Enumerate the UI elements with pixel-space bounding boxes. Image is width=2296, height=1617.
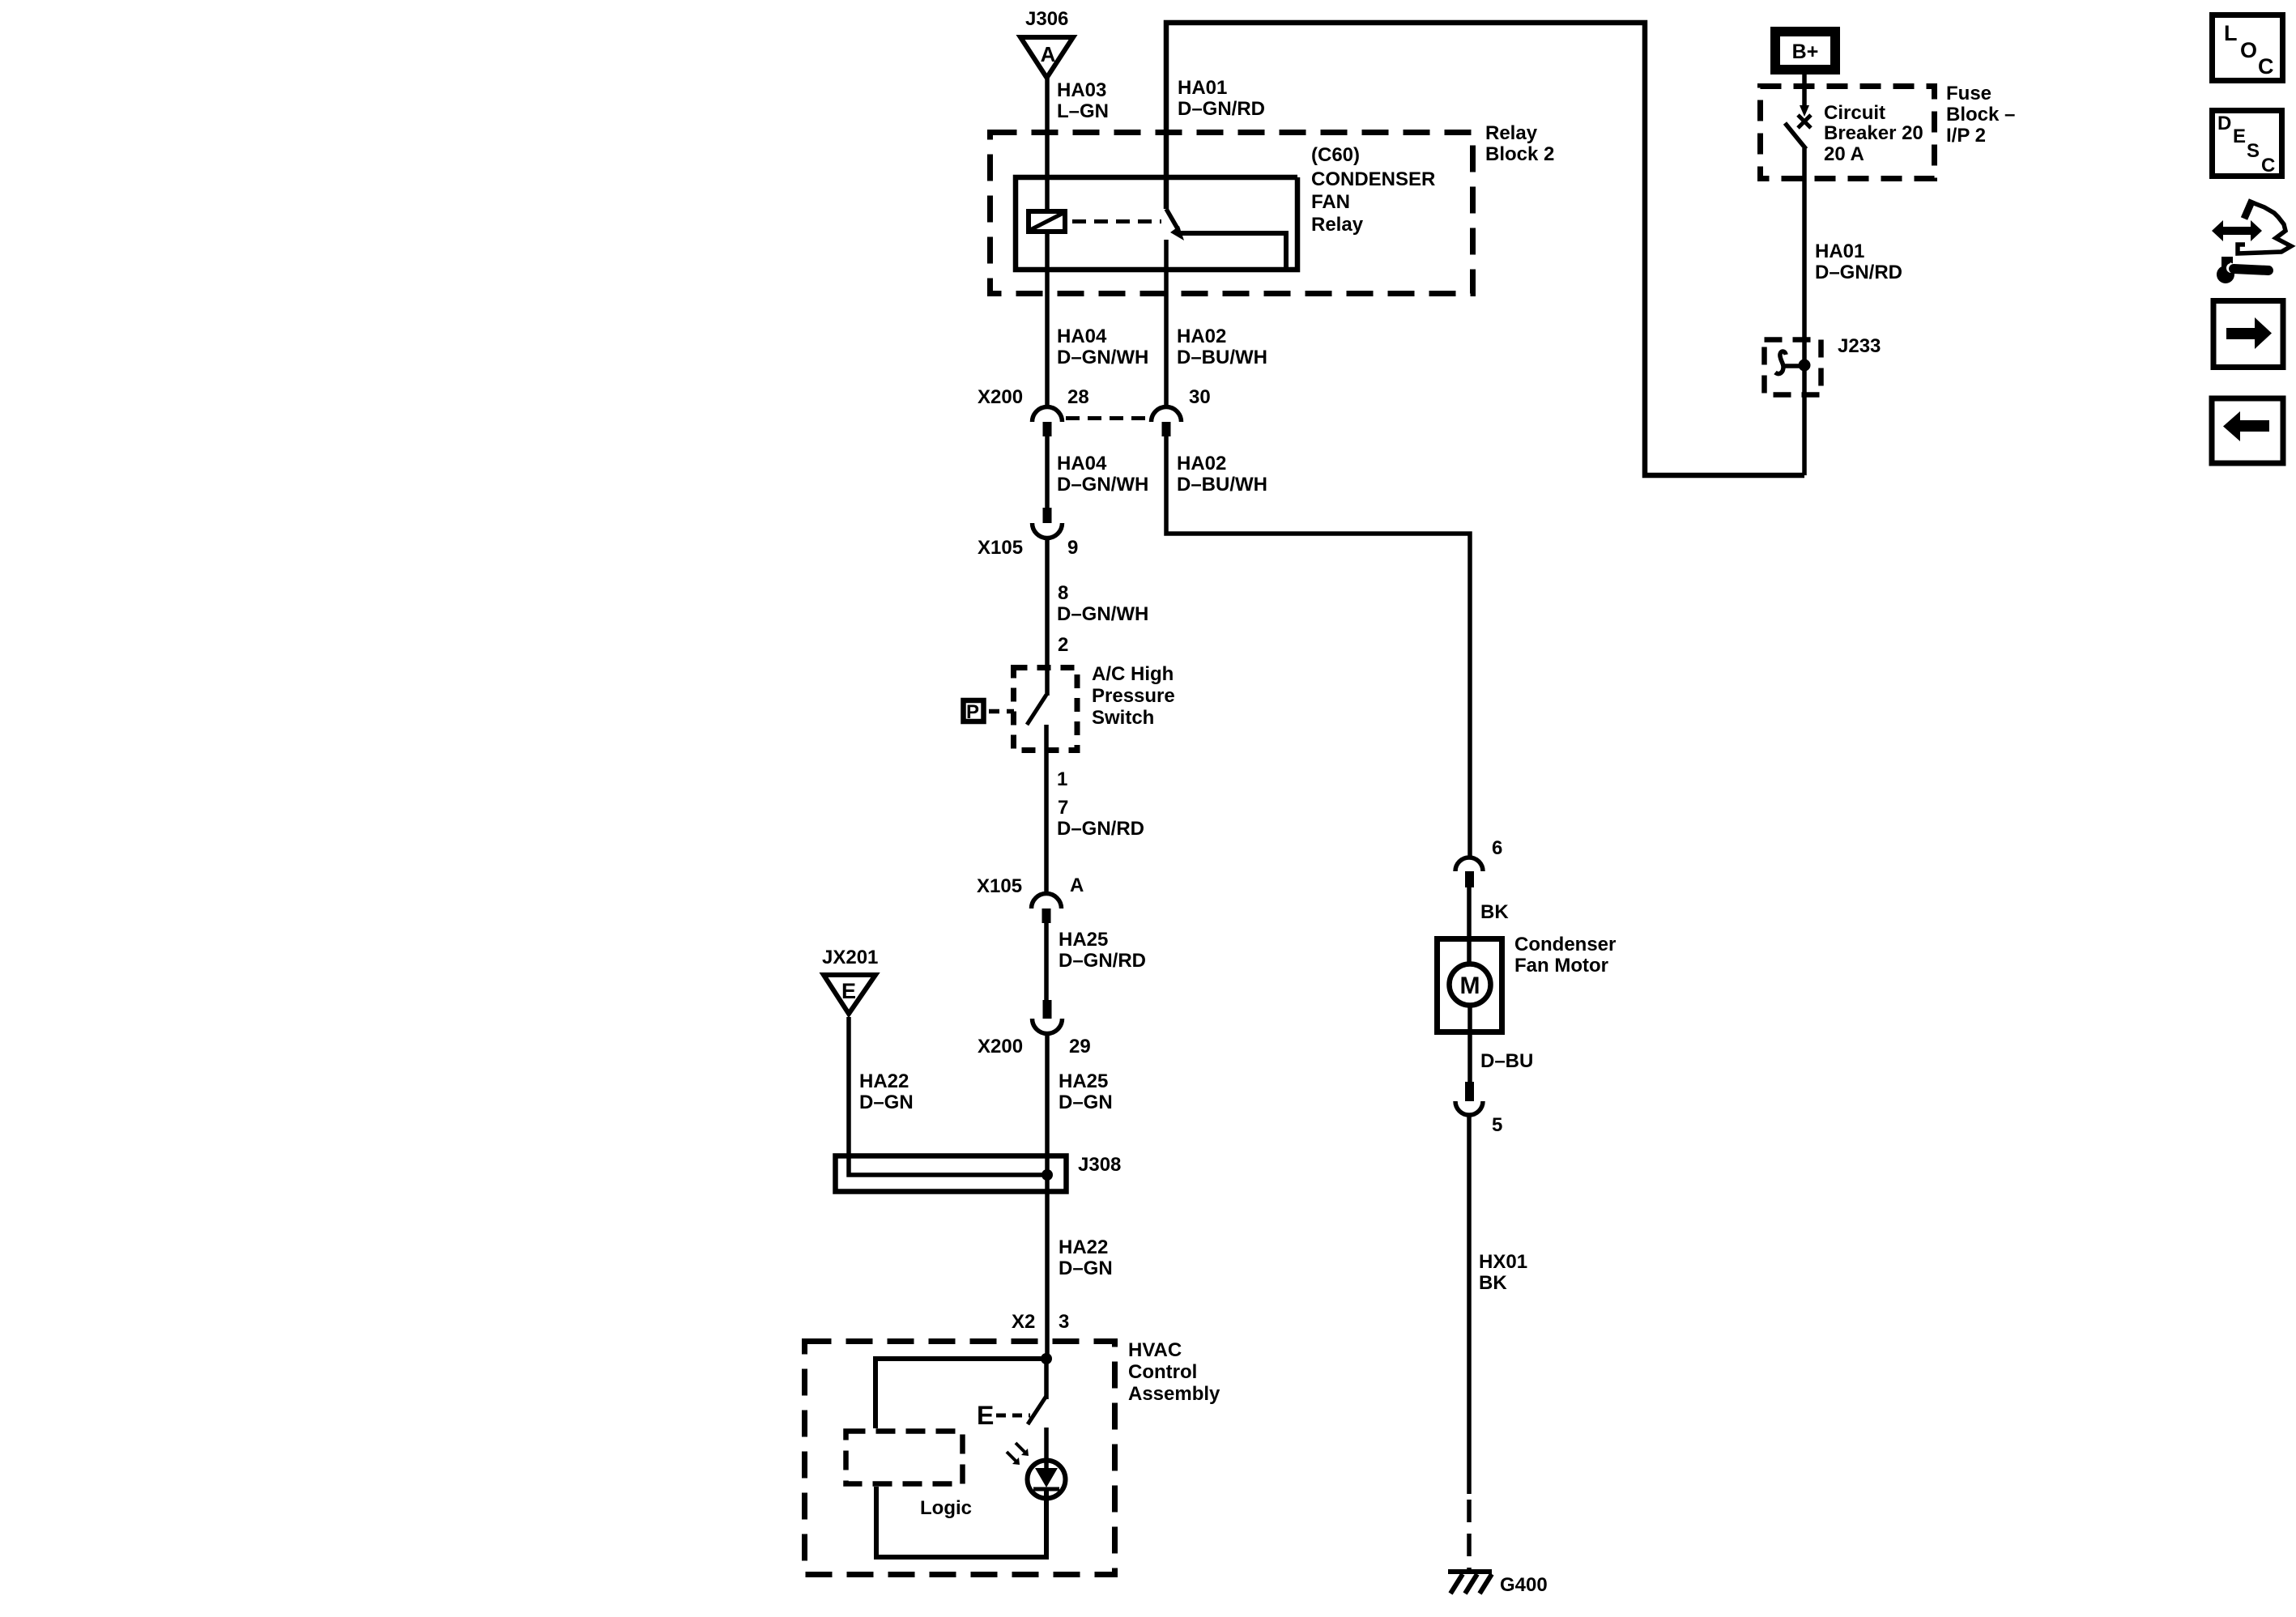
svg-text:E: E bbox=[977, 1401, 994, 1430]
svg-text:30: 30 bbox=[1189, 386, 1211, 408]
svg-text:C: C bbox=[2261, 155, 2275, 177]
svg-text:BK: BK bbox=[1480, 901, 1509, 923]
svg-text:HA22: HA22 bbox=[1059, 1236, 1108, 1258]
icon service navigation diagonal stub bbox=[2244, 200, 2252, 219]
svg-text:HA02: HA02 bbox=[1177, 326, 1226, 347]
label HA04 D-GN/WH (upper) bbox=[1057, 326, 1148, 368]
icon DESC bbox=[2213, 111, 2282, 177]
circuit breaker arm bbox=[1785, 123, 1806, 149]
svg-text:28: 28 bbox=[1067, 386, 1089, 408]
wire pin 1 to X105 A bbox=[1044, 725, 1049, 894]
icon service navigation double arrow bbox=[2212, 220, 2262, 241]
svg-text:Switch: Switch bbox=[1092, 707, 1154, 729]
svg-text:Relay: Relay bbox=[1311, 214, 1364, 236]
wire D-BU below motor bbox=[1467, 1005, 1472, 1082]
label HA03 L-GN bbox=[1057, 79, 1109, 122]
svg-text:Block –: Block – bbox=[1946, 104, 2015, 126]
svg-text:J308: J308 bbox=[1078, 1154, 1121, 1176]
connector pin 5 bbox=[1455, 1082, 1483, 1115]
svg-text:E: E bbox=[2233, 126, 2246, 147]
svg-text:7: 7 bbox=[1058, 797, 1068, 819]
svg-text:20 A: 20 A bbox=[1824, 143, 1864, 165]
connector JX201 triangle E bbox=[824, 975, 875, 1014]
wire HA02 route to condenser fan motor bbox=[1166, 436, 1470, 856]
relay U1 outline bbox=[1016, 177, 1297, 270]
icon LOC bbox=[2213, 15, 2283, 81]
svg-text:D–GN: D–GN bbox=[1059, 1091, 1113, 1113]
svg-text:D–GN/WH: D–GN/WH bbox=[1057, 474, 1148, 496]
svg-text:G400: G400 bbox=[1500, 1574, 1548, 1596]
label Relay Block 2 bbox=[1485, 122, 1554, 165]
label 8 D-GN/WH bbox=[1057, 582, 1148, 625]
relay coil bbox=[1029, 211, 1065, 232]
svg-text:3: 3 bbox=[1059, 1311, 1069, 1333]
label HA01 D-GN/RD (top) bbox=[1178, 77, 1265, 120]
wire B+ into breaker with arrowhead bbox=[1800, 74, 1809, 117]
battery feed B+ bbox=[1770, 27, 1840, 74]
label Fuse Block - I/P 2 bbox=[1946, 83, 2015, 147]
relay switch contact path bbox=[1176, 233, 1286, 270]
junction dot J308 bbox=[1042, 1169, 1053, 1181]
relay switch arm with arrowhead bbox=[1166, 209, 1184, 240]
svg-text:A/C High: A/C High bbox=[1092, 663, 1174, 685]
label HA25 D-GN/RD bbox=[1059, 929, 1146, 972]
pressure switch arm bbox=[1027, 695, 1046, 725]
svg-text:A: A bbox=[1041, 42, 1056, 66]
splice J308 box bbox=[836, 1156, 1067, 1192]
svg-text:HA04: HA04 bbox=[1057, 326, 1107, 347]
svg-text:1: 1 bbox=[1057, 768, 1067, 790]
svg-text:D–GN/RD: D–GN/RD bbox=[1815, 262, 1902, 283]
svg-text:D–GN/WH: D–GN/WH bbox=[1057, 603, 1148, 625]
A/C high pressure switch dashed box bbox=[1014, 668, 1078, 751]
connector X200 pin 28 bbox=[1033, 407, 1063, 437]
label HA04 D-GN/WH (lower) bbox=[1057, 453, 1148, 496]
svg-text:M: M bbox=[1460, 972, 1480, 999]
svg-text:HA22: HA22 bbox=[859, 1070, 909, 1092]
wire LED to logic return bbox=[876, 1487, 1046, 1557]
svg-text:Condenser: Condenser bbox=[1514, 934, 1616, 955]
connector X200 body dashed link bbox=[1066, 416, 1150, 420]
svg-text:X200: X200 bbox=[978, 386, 1023, 408]
connector X200 pin 29 bbox=[1033, 1000, 1063, 1034]
svg-text:Assembly: Assembly bbox=[1128, 1383, 1220, 1405]
svg-text:O: O bbox=[2240, 38, 2257, 62]
wire junction down to switch bbox=[1044, 1359, 1049, 1399]
svg-text:D–GN: D–GN bbox=[859, 1091, 914, 1113]
label X200 pin 29 bbox=[978, 1036, 1091, 1057]
svg-text:9: 9 bbox=[1067, 537, 1078, 559]
wire 8 D-GN/WH to pressure switch bbox=[1045, 538, 1050, 696]
logic dashed box bbox=[846, 1432, 963, 1484]
label HA22 D-GN (left) bbox=[859, 1070, 914, 1113]
circuit breaker contact X bbox=[1798, 115, 1811, 128]
label Circuit Breaker 20 20 A bbox=[1824, 102, 1923, 165]
svg-text:(C60): (C60) bbox=[1311, 144, 1360, 166]
svg-text:HX01: HX01 bbox=[1479, 1251, 1527, 1273]
icon wrench bbox=[2217, 257, 2268, 283]
icon service navigation outline bbox=[2238, 202, 2291, 253]
svg-text:HA04: HA04 bbox=[1057, 453, 1107, 474]
connector J306 triangle A bbox=[1020, 37, 1073, 78]
dashed wire to ground bbox=[1467, 1500, 1472, 1569]
svg-text:HA25: HA25 bbox=[1059, 929, 1108, 951]
svg-text:HA01: HA01 bbox=[1178, 77, 1227, 99]
wire HX01 BK to ground bbox=[1467, 1115, 1472, 1494]
circuit breaker dashed box bbox=[1761, 87, 1935, 179]
wire HA03 from J306 to relay coil bbox=[1045, 78, 1050, 209]
svg-text:E: E bbox=[841, 979, 856, 1003]
condenser fan motor box bbox=[1438, 939, 1502, 1032]
label X200 pin 28 pin 30 bbox=[978, 386, 1211, 408]
svg-text:D–GN/RD: D–GN/RD bbox=[1057, 818, 1144, 840]
svg-text:Fuse: Fuse bbox=[1946, 83, 1991, 104]
label HX01 BK bbox=[1479, 1251, 1527, 1294]
motor M circle bbox=[1450, 964, 1491, 1006]
svg-text:B+: B+ bbox=[1792, 40, 1819, 63]
svg-text:HA02: HA02 bbox=[1177, 453, 1226, 474]
svg-text:L: L bbox=[2224, 21, 2238, 45]
relay coil-to-switch dashed link bbox=[1072, 219, 1161, 223]
LED indicator bbox=[1028, 1461, 1066, 1499]
label HA01 D-GN/RD (right) bbox=[1815, 240, 1902, 283]
svg-text:D–GN: D–GN bbox=[1059, 1257, 1113, 1279]
label X105 pin 9 bbox=[978, 537, 1078, 559]
label 7 D-GN/RD bbox=[1057, 797, 1144, 840]
svg-text:HVAC: HVAC bbox=[1128, 1339, 1182, 1361]
svg-text:D–GN/RD: D–GN/RD bbox=[1059, 950, 1146, 972]
svg-text:Breaker 20: Breaker 20 bbox=[1824, 122, 1923, 144]
relay block 2 dashed box bbox=[990, 133, 1473, 294]
svg-text:D–BU/WH: D–BU/WH bbox=[1177, 347, 1267, 368]
svg-text:Control: Control bbox=[1128, 1361, 1197, 1383]
svg-text:Circuit: Circuit bbox=[1824, 102, 1885, 124]
svg-text:C: C bbox=[2258, 54, 2274, 79]
wire HA01 breaker to J233 and down bbox=[1802, 148, 1807, 475]
wire HA04 from coil down bbox=[1045, 234, 1050, 407]
svg-text:A: A bbox=[1070, 874, 1084, 896]
wire BK into motor bbox=[1467, 887, 1472, 964]
label P box bbox=[964, 700, 984, 723]
wire HA04 X200 to X105 bbox=[1045, 436, 1050, 508]
splice J233 terminal bbox=[1775, 351, 1811, 374]
svg-text:HA03: HA03 bbox=[1057, 79, 1106, 101]
HVAC control assembly dashed box bbox=[805, 1342, 1115, 1575]
splice J233 dashed box bbox=[1765, 340, 1821, 395]
svg-text:Fan Motor: Fan Motor bbox=[1514, 955, 1608, 977]
label HA22 D-GN (lower) bbox=[1059, 1236, 1113, 1279]
connector X200 pin 30 bbox=[1152, 407, 1182, 437]
icon forward arrow bbox=[2213, 301, 2283, 368]
ground G400 bbox=[1448, 1572, 1492, 1594]
connector X105 pin A bbox=[1032, 894, 1062, 924]
svg-text:29: 29 bbox=[1069, 1036, 1091, 1057]
junction node X2-3 bbox=[1041, 1353, 1052, 1364]
svg-text:S: S bbox=[2247, 140, 2260, 162]
svg-text:BK: BK bbox=[1479, 1272, 1507, 1294]
svg-text:J233: J233 bbox=[1838, 335, 1881, 357]
label HA25 D-GN bbox=[1059, 1070, 1113, 1113]
svg-text:J306: J306 bbox=[1025, 8, 1068, 30]
svg-text:Logic: Logic bbox=[920, 1497, 972, 1519]
svg-text:5: 5 bbox=[1492, 1114, 1502, 1136]
label HVAC Control Assembly bbox=[1128, 1339, 1220, 1405]
svg-text:Block 2: Block 2 bbox=[1485, 143, 1554, 165]
label Condenser Fan Motor bbox=[1514, 934, 1616, 977]
wire HA22 from JX201 to J308 bbox=[849, 1017, 1045, 1175]
svg-text:CONDENSER: CONDENSER bbox=[1311, 168, 1435, 190]
svg-text:JX201: JX201 bbox=[822, 947, 878, 968]
svg-text:Pressure: Pressure bbox=[1092, 685, 1175, 707]
svg-text:HA25: HA25 bbox=[1059, 1070, 1108, 1092]
svg-text:L–GN: L–GN bbox=[1057, 100, 1109, 122]
HVAC switch arm bbox=[1028, 1396, 1046, 1424]
P-to-switch dashed link bbox=[989, 709, 1014, 714]
wire HA25 D-GN/RD bbox=[1044, 923, 1049, 1000]
LED light arrows bbox=[1007, 1443, 1029, 1465]
E-to-switch dashed link bbox=[996, 1414, 1030, 1418]
svg-text:X105: X105 bbox=[978, 537, 1023, 559]
svg-text:D–GN/WH: D–GN/WH bbox=[1057, 347, 1148, 368]
label X105 pin A bbox=[977, 874, 1084, 897]
connector X105 pin 9 bbox=[1033, 508, 1063, 538]
icon back arrow bbox=[2212, 398, 2283, 463]
label HA02 D-BU/WH (lower) bbox=[1177, 453, 1267, 496]
label (C60) CONDENSER FAN Relay bbox=[1311, 144, 1435, 236]
svg-text:X200: X200 bbox=[978, 1036, 1023, 1057]
wire junction to logic box bbox=[875, 1359, 1046, 1428]
svg-text:HA01: HA01 bbox=[1815, 240, 1864, 262]
svg-text:I/P 2: I/P 2 bbox=[1946, 125, 1986, 147]
svg-text:8: 8 bbox=[1058, 582, 1068, 604]
svg-text:D: D bbox=[2217, 113, 2231, 134]
svg-text:P: P bbox=[966, 701, 979, 723]
svg-text:D–BU: D–BU bbox=[1480, 1050, 1533, 1072]
svg-text:D–BU/WH: D–BU/WH bbox=[1177, 474, 1267, 496]
svg-text:2: 2 bbox=[1058, 634, 1068, 656]
svg-text:6: 6 bbox=[1492, 837, 1502, 859]
wire switch to LED bbox=[1044, 1428, 1049, 1468]
connector pin 6 bbox=[1455, 857, 1483, 887]
svg-text:D–GN/RD: D–GN/RD bbox=[1178, 98, 1265, 120]
wire HA25 D-GN down through J308 to HVAC bbox=[1045, 1034, 1050, 1360]
label X2 pin 3 bbox=[1012, 1311, 1069, 1333]
wire HA02 from relay switch down bbox=[1164, 240, 1169, 407]
svg-text:X105: X105 bbox=[977, 875, 1022, 897]
svg-text:FAN: FAN bbox=[1311, 191, 1350, 213]
label A/C High Pressure Switch bbox=[1092, 663, 1175, 729]
svg-text:X2: X2 bbox=[1012, 1311, 1035, 1333]
label HA02 D-BU/WH (upper) bbox=[1177, 326, 1267, 368]
wire HA01 top run from relay to right side bbox=[1166, 23, 1804, 475]
svg-text:Relay: Relay bbox=[1485, 122, 1538, 144]
